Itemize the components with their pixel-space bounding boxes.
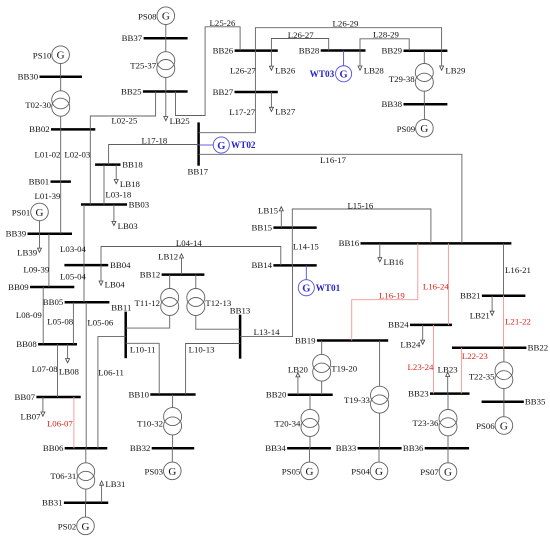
svg-text:LB15: LB15	[258, 205, 279, 215]
wind turbine WT02	[199, 137, 256, 153]
svg-text:BB35: BB35	[525, 397, 546, 407]
svg-text:L01-39: L01-39	[35, 191, 61, 201]
wire L08-09	[16, 287, 43, 344]
svg-text:BB05: BB05	[43, 297, 64, 307]
wire L26-29	[255, 18, 441, 50]
svg-text:LB39: LB39	[17, 248, 38, 258]
wire L10-11	[126, 343, 160, 394]
svg-text:BB37: BB37	[122, 33, 143, 43]
transformer T19-33	[344, 341, 389, 449]
svg-text:PS06: PS06	[476, 421, 495, 431]
busbar BB15	[252, 222, 317, 232]
svg-text:G: G	[420, 123, 428, 135]
svg-text:T19-33: T19-33	[344, 395, 370, 405]
svg-text:T12-13: T12-13	[205, 298, 231, 308]
svg-text:G: G	[82, 521, 90, 533]
svg-text:L23-24: L23-24	[408, 362, 434, 372]
transformer T02-30	[25, 77, 70, 130]
svg-text:T10-32: T10-32	[137, 418, 163, 428]
load LB18	[114, 165, 140, 189]
svg-text:G: G	[57, 50, 65, 62]
svg-text:L10-13: L10-13	[189, 345, 215, 355]
svg-text:PS08: PS08	[138, 11, 157, 21]
svg-text:T19-20: T19-20	[331, 364, 357, 374]
wire L02-03	[64, 129, 90, 204]
busbar BB22	[452, 343, 548, 353]
busbar BB23	[408, 388, 469, 398]
load LB03	[112, 205, 138, 231]
wire L15-16	[292, 201, 431, 244]
load LB21	[470, 296, 494, 321]
svg-text:BB33: BB33	[336, 443, 357, 453]
svg-text:BB10: BB10	[128, 389, 149, 399]
transformer T12-13	[187, 275, 232, 316]
busbar BB31	[42, 498, 108, 508]
svg-text:L04-14: L04-14	[176, 238, 202, 248]
svg-text:G: G	[168, 466, 176, 478]
svg-text:PS09: PS09	[397, 124, 416, 134]
load LB28	[358, 51, 384, 76]
svg-text:L07-08: L07-08	[32, 364, 58, 374]
svg-text:G: G	[375, 466, 383, 478]
wire T12-13 to BB13	[196, 316, 240, 330]
svg-text:G: G	[302, 284, 310, 295]
busbar BB20	[266, 390, 333, 400]
svg-text:BB06: BB06	[43, 443, 64, 453]
generator PS03	[145, 448, 182, 480]
busbar BB26	[213, 45, 278, 55]
svg-text:BB16: BB16	[339, 238, 360, 248]
svg-text:LB18: LB18	[120, 179, 141, 189]
svg-text:LB25: LB25	[170, 116, 191, 126]
svg-text:BB26: BB26	[213, 45, 234, 55]
svg-text:BB36: BB36	[403, 443, 424, 453]
load LB23	[438, 364, 459, 393]
busbar BB37	[122, 33, 188, 43]
wire L23-24 (red)	[408, 325, 434, 394]
svg-text:G: G	[306, 466, 314, 478]
wire L07-08	[32, 344, 58, 397]
svg-text:BB14: BB14	[252, 260, 273, 270]
load LB31	[100, 479, 126, 503]
svg-text:BB38: BB38	[382, 99, 403, 109]
generator PS06	[476, 402, 513, 435]
svg-text:LB20: LB20	[288, 365, 309, 375]
generator PS08	[138, 7, 175, 38]
busbar BB18	[95, 159, 143, 169]
svg-text:PS03: PS03	[145, 466, 164, 476]
load LB12	[158, 252, 183, 275]
load LB04	[99, 265, 125, 289]
svg-text:LB28: LB28	[364, 65, 385, 75]
wire L17-18	[109, 135, 199, 164]
busbar BB10	[128, 389, 195, 399]
generator PS10	[33, 46, 70, 77]
load LB20	[288, 365, 309, 395]
transformer T23-36	[412, 394, 457, 449]
svg-text:L22-23: L22-23	[462, 351, 488, 361]
svg-text:BB09: BB09	[8, 282, 29, 292]
transformer T06-31	[50, 448, 94, 502]
wire L01-02	[35, 129, 61, 181]
svg-text:BB21: BB21	[460, 291, 481, 301]
transformer T25-37	[130, 38, 175, 91]
svg-text:L26-27: L26-27	[230, 66, 256, 76]
wire L26-27	[230, 51, 256, 92]
svg-text:T23-36: T23-36	[412, 418, 438, 428]
svg-text:BB32: BB32	[130, 443, 151, 453]
wire L06-11	[98, 337, 126, 449]
svg-text:BB19: BB19	[295, 335, 316, 345]
busbar BB13 (vertical)	[230, 305, 251, 358]
generator PS07	[420, 448, 457, 480]
svg-text:L25-26: L25-26	[210, 18, 236, 28]
svg-text:L06-11: L06-11	[98, 367, 124, 377]
wire L14-15	[292, 228, 319, 266]
svg-text:G: G	[500, 420, 508, 432]
busbar BB02	[29, 124, 95, 134]
svg-text:BB24: BB24	[388, 320, 409, 330]
busbar BB08	[16, 339, 77, 349]
svg-text:BB08: BB08	[16, 339, 37, 349]
busbar BB05	[43, 297, 110, 307]
svg-text:LB29: LB29	[445, 65, 466, 75]
busbar BB14	[252, 260, 317, 270]
svg-text:BB27: BB27	[213, 87, 234, 97]
wire L06-07 (red)	[47, 397, 74, 448]
svg-text:L16-19: L16-19	[379, 291, 405, 301]
wire L09-39	[23, 234, 49, 287]
svg-text:BB39: BB39	[6, 229, 27, 239]
busbar BB36	[403, 443, 469, 453]
busbar BB01	[29, 176, 71, 186]
svg-text:L03-04: L03-04	[60, 244, 86, 254]
wind turbine WT01	[298, 265, 340, 295]
busbar BB07	[15, 392, 81, 402]
svg-text:LB21: LB21	[470, 311, 490, 321]
svg-text:G: G	[444, 466, 452, 478]
svg-text:L26-29: L26-29	[333, 18, 359, 28]
busbar BB16	[339, 238, 512, 248]
busbar BB38	[382, 99, 448, 109]
load LB08	[59, 344, 80, 376]
busbar BB06	[43, 443, 107, 453]
svg-text:L16-24: L16-24	[423, 282, 449, 292]
svg-text:BB03: BB03	[129, 199, 150, 209]
busbar BB12	[140, 269, 205, 279]
wire L05-06	[86, 302, 114, 448]
svg-text:L16-17: L16-17	[320, 155, 346, 165]
svg-text:L13-14: L13-14	[254, 327, 280, 337]
svg-text:L16-21: L16-21	[505, 265, 531, 275]
svg-text:LB08: LB08	[59, 366, 80, 376]
svg-text:T06-31: T06-31	[50, 471, 76, 481]
svg-text:BB20: BB20	[266, 390, 287, 400]
svg-text:BB02: BB02	[29, 124, 50, 134]
generator PS05	[282, 448, 319, 479]
wind turbine WT03	[310, 51, 352, 82]
svg-text:LB24: LB24	[400, 340, 421, 350]
transformer T11-12	[135, 275, 179, 316]
wire L03-04	[60, 205, 86, 266]
busbar BB03	[81, 199, 150, 209]
svg-text:WT03: WT03	[310, 69, 335, 79]
svg-text:BB01: BB01	[29, 176, 50, 186]
svg-text:T02-30: T02-30	[25, 100, 51, 110]
load LB39	[17, 234, 41, 258]
wire L01-39	[35, 182, 61, 234]
svg-text:T29-38: T29-38	[389, 74, 415, 84]
transformer T29-38	[389, 51, 434, 105]
svg-text:L05-06: L05-06	[87, 318, 113, 328]
wire L05-08	[47, 302, 73, 344]
generator PS01	[12, 203, 49, 234]
svg-text:G: G	[340, 70, 348, 81]
svg-text:BB30: BB30	[18, 72, 39, 82]
svg-text:L21-22: L21-22	[505, 316, 531, 326]
wire L16-21	[504, 243, 531, 295]
wire L28-29	[360, 30, 409, 51]
svg-text:LB23: LB23	[438, 364, 459, 374]
svg-text:BB22: BB22	[528, 343, 549, 353]
svg-text:BB18: BB18	[122, 159, 143, 169]
svg-text:BB11: BB11	[111, 303, 131, 313]
wire L13-14	[240, 265, 292, 336]
load LB24	[400, 325, 424, 350]
svg-text:G: G	[162, 11, 170, 23]
svg-text:BB12: BB12	[140, 269, 161, 279]
busbar BB17 (vertical)	[188, 122, 209, 176]
svg-text:BB25: BB25	[121, 86, 142, 96]
wire L03-18	[104, 165, 132, 205]
busbar BB32	[130, 443, 194, 453]
busbar BB11 (vertical)	[111, 303, 131, 359]
svg-text:G: G	[217, 141, 225, 152]
load LB25	[164, 92, 190, 126]
svg-text:LB27: LB27	[275, 107, 296, 117]
svg-text:BB29: BB29	[382, 46, 403, 56]
busbar BB21	[460, 291, 525, 301]
busbar BB09	[8, 282, 74, 292]
svg-text:T20-34: T20-34	[274, 419, 300, 429]
svg-text:LB26: LB26	[275, 66, 296, 76]
wire L04-14	[101, 238, 281, 265]
busbar BB25	[121, 86, 188, 96]
svg-text:L15-16: L15-16	[347, 201, 373, 211]
wire L17-27	[199, 92, 256, 133]
busbar BB39	[6, 229, 72, 239]
svg-text:BB34: BB34	[265, 443, 286, 453]
generator PS02	[58, 503, 95, 535]
transformer T19-20	[313, 341, 358, 395]
svg-text:BB07: BB07	[15, 392, 36, 402]
wire L02-25	[90, 92, 155, 130]
wire L16-19 (red)	[352, 243, 418, 340]
busbar BB35	[482, 397, 546, 407]
wire L26-27	[271, 30, 328, 51]
svg-text:LB16: LB16	[384, 257, 405, 267]
wire L16-24 (red)	[423, 243, 449, 325]
svg-text:L17-18: L17-18	[141, 135, 167, 145]
svg-text:WT02: WT02	[231, 140, 256, 150]
load LB27	[269, 92, 295, 117]
svg-text:G: G	[36, 207, 44, 219]
svg-text:BB28: BB28	[299, 45, 320, 55]
wire L16-17	[199, 154, 462, 243]
svg-text:WT01: WT01	[316, 283, 341, 293]
svg-text:LB07: LB07	[21, 411, 42, 421]
busbar BB30	[18, 72, 82, 82]
wire L25-26	[176, 18, 241, 116]
wire L10-13	[186, 344, 241, 395]
busbar BB24	[388, 320, 452, 330]
svg-text:BB15: BB15	[252, 222, 273, 232]
svg-text:PS10: PS10	[33, 50, 52, 60]
svg-text:T22-35: T22-35	[469, 372, 495, 382]
svg-text:L08-09: L08-09	[16, 310, 42, 320]
svg-text:L09-39: L09-39	[23, 264, 49, 274]
transformer T22-35	[469, 348, 513, 402]
svg-text:L05-04: L05-04	[60, 272, 86, 282]
wire L22-23 (red)	[461, 348, 488, 394]
svg-text:LB31: LB31	[105, 479, 125, 489]
load LB15	[258, 205, 283, 227]
svg-text:L26-27: L26-27	[288, 30, 314, 40]
busbar BB29	[382, 46, 448, 56]
svg-text:L06-07: L06-07	[47, 419, 73, 429]
svg-text:L10-11: L10-11	[130, 344, 156, 354]
busbar BB19	[295, 335, 388, 345]
svg-text:PS07: PS07	[420, 467, 439, 477]
transformer T10-32	[137, 395, 182, 449]
busbar BB04	[64, 260, 131, 270]
svg-text:L03-18: L03-18	[105, 190, 131, 200]
svg-text:PS04: PS04	[351, 466, 370, 476]
wire L21-22 (red)	[504, 296, 531, 348]
svg-text:PS02: PS02	[58, 521, 77, 531]
busbar BB28	[299, 45, 366, 55]
svg-text:LB03: LB03	[118, 221, 139, 231]
svg-text:L28-29: L28-29	[373, 30, 399, 40]
svg-text:T11-12: T11-12	[135, 298, 161, 308]
generator PS04	[351, 448, 388, 479]
svg-text:L05-08: L05-08	[47, 316, 73, 326]
busbar BB33	[336, 443, 402, 453]
svg-text:BB13: BB13	[230, 305, 251, 315]
load LB16	[378, 243, 404, 267]
svg-text:L17-27: L17-27	[229, 107, 255, 117]
svg-text:LB12: LB12	[158, 252, 178, 262]
svg-text:LB04: LB04	[105, 280, 126, 290]
svg-text:L14-15: L14-15	[293, 241, 319, 251]
svg-text:BB23: BB23	[408, 388, 429, 398]
svg-text:PS01: PS01	[12, 208, 31, 218]
busbar BB27	[213, 87, 278, 97]
svg-text:BB31: BB31	[42, 498, 63, 508]
svg-text:L02-25: L02-25	[111, 116, 137, 126]
wire L05-04	[60, 265, 86, 302]
load LB07	[21, 397, 45, 421]
svg-text:T25-37: T25-37	[130, 61, 156, 71]
wire T11-12 to BB11	[126, 316, 170, 329]
transformer T20-34	[274, 395, 319, 449]
busbar BB34	[265, 443, 331, 453]
load LB26	[269, 51, 295, 76]
svg-text:L01-02: L01-02	[35, 150, 61, 160]
load LB29	[440, 51, 466, 76]
generator PS09	[397, 104, 434, 137]
svg-text:L02-03: L02-03	[64, 150, 90, 160]
svg-text:PS05: PS05	[282, 466, 301, 476]
svg-text:BB04: BB04	[110, 260, 131, 270]
svg-text:BB17: BB17	[188, 167, 209, 177]
